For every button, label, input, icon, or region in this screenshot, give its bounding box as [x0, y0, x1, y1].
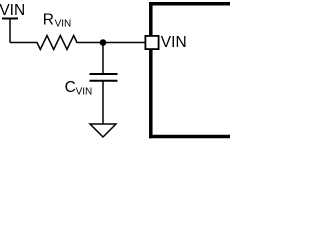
- svg-text:VIN: VIN: [76, 87, 93, 98]
- svg-text:VIN: VIN: [55, 19, 72, 30]
- svg-text:VIN: VIN: [161, 34, 187, 51]
- svg-text:C: C: [65, 79, 76, 96]
- svg-text:R: R: [43, 11, 54, 28]
- svg-text:VIN: VIN: [0, 2, 25, 19]
